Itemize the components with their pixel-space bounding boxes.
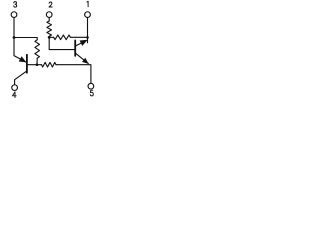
Q2 lower arrowhead [82, 58, 89, 64]
Q1 emitter arrowhead [19, 56, 27, 62]
wire terminal3 down [13, 18, 15, 56]
wire node B through R2 start [37, 64, 42, 66]
wire R3 to node D [48, 36, 50, 37]
terminal 1 [85, 12, 91, 18]
resistor R4 horizontal [54, 35, 71, 40]
wire R2 to corner and down to terminal 5 [56, 65, 91, 84]
resistor R3 vertical under terminal 2 [47, 21, 52, 36]
junction node D [48, 36, 51, 39]
Q2 lower diagonal (arrow to node C) [76, 53, 89, 63]
label 5 [90, 90, 93, 96]
terminal 5 [88, 83, 94, 89]
Q2 upper diagonal (arrow to terminal1 node) [76, 41, 86, 46]
wire node D right to R4 [49, 36, 53, 38]
wire terminal2 down [48, 18, 50, 21]
terminal 2 [46, 12, 52, 18]
wire R1 bottom to node B [36, 58, 38, 64]
wire node A to R1 top [14, 38, 37, 40]
wire terminal1 down [87, 18, 89, 43]
terminal 4 [12, 85, 18, 91]
junction node A [13, 36, 16, 39]
label 1 [87, 1, 88, 7]
resistor R2 horizontal [42, 62, 57, 67]
junction node E at terminal1 wire [86, 36, 89, 39]
Q1 base bar [26, 55, 28, 73]
terminal 3 [11, 12, 17, 18]
Q2 base bar [74, 40, 76, 56]
wire node D down and right to Q2 base [49, 37, 74, 49]
label 2 [49, 2, 52, 7]
label 4 [13, 92, 17, 98]
resistor R1 vertical [35, 40, 40, 58]
Q1 collector diagonal to terminal 4 [15, 71, 27, 85]
junction node B [36, 63, 39, 66]
Q2 upper arrowhead [80, 40, 88, 46]
wire R4 to terminal1 node [70, 36, 87, 38]
label 3 [14, 2, 17, 8]
Q1 emitter diagonal from terminal3 wire [14, 56, 26, 63]
Q1 base wire to node B [28, 64, 37, 66]
